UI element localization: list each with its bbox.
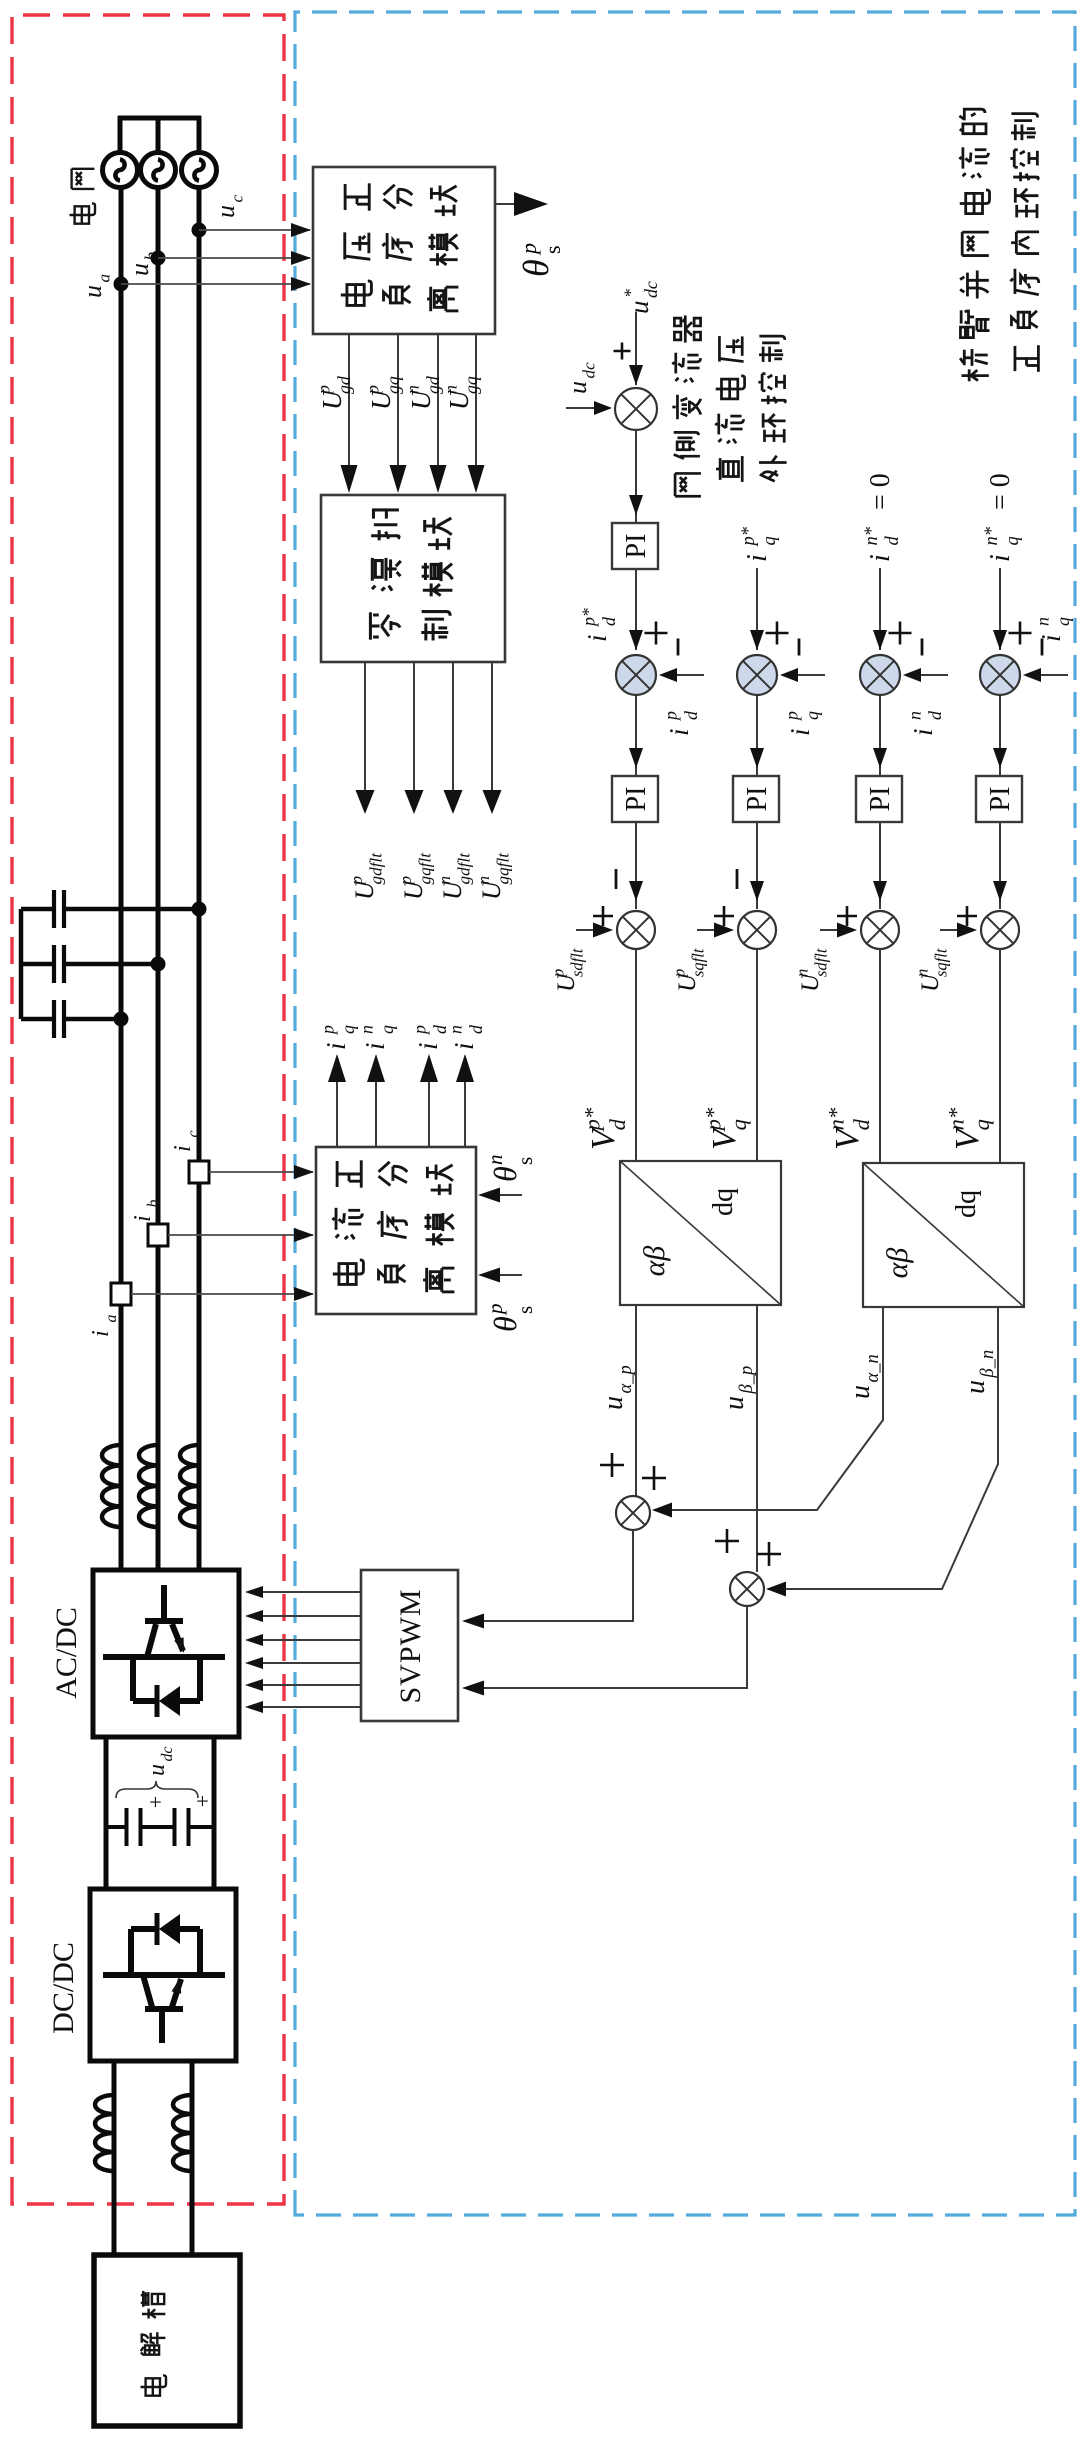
grid bus wire xyxy=(118,116,201,121)
svg-text:d: d xyxy=(882,535,902,545)
arrowhead U_gd^p xyxy=(341,465,358,493)
svg-text:c: c xyxy=(185,1130,202,1137)
svg-text:q: q xyxy=(1053,617,1073,626)
filter capacitor phase c xyxy=(21,890,207,928)
feedback wire row 2 xyxy=(784,674,825,676)
text 制模块 xyxy=(421,518,452,641)
label i_d^p fb xyxy=(661,711,701,736)
svg-text:i: i xyxy=(865,554,896,562)
phase a wire xyxy=(119,187,124,1570)
svg-text:n: n xyxy=(435,876,454,885)
svg-text:PI: PI xyxy=(621,787,652,812)
svg-text:gd: gd xyxy=(334,376,354,394)
wire source b to bus xyxy=(156,116,161,153)
arrowhead ub into voltage module xyxy=(291,251,311,265)
svg-text:dq: dq xyxy=(708,1188,739,1216)
svg-text:b: b xyxy=(142,251,161,260)
svg-text:θ: θ xyxy=(487,1316,523,1332)
svg-text:p: p xyxy=(661,711,681,722)
svg-text:i: i xyxy=(88,1330,114,1337)
svg-text:gq: gq xyxy=(461,376,481,394)
minus at Usum row 2 xyxy=(736,869,739,889)
filter capacitor phase a xyxy=(21,1000,129,1038)
u_dc* reference wire xyxy=(635,312,637,385)
label U_gd^p xyxy=(314,376,354,410)
wire i_d^p output xyxy=(428,1068,430,1147)
gate arrowhead 6 xyxy=(245,1586,263,1598)
svg-text:p: p xyxy=(318,1025,338,1036)
svg-text:q: q xyxy=(726,1119,751,1130)
U_s input wire row 2 xyxy=(697,929,730,931)
filter capacitor phase b xyxy=(21,945,166,983)
wire U_gqflt^p output xyxy=(413,662,415,803)
svg-text:α_p: α_p xyxy=(615,1365,635,1393)
svg-text:q: q xyxy=(338,1025,358,1034)
label i_d^n xyxy=(446,1025,486,1050)
wire V out row 4 xyxy=(999,949,1001,1164)
svg-text:n: n xyxy=(446,1025,466,1034)
minus sign row 2 xyxy=(798,639,801,656)
label U_gq^p xyxy=(363,376,403,410)
svg-text:DC/DC: DC/DC xyxy=(47,1942,80,2034)
svg-text:β_n: β_n xyxy=(977,1350,997,1379)
svg-text:= 0: = 0 xyxy=(865,473,896,510)
wire u_beta_n path xyxy=(768,1307,998,1589)
gate wire 4 xyxy=(250,1639,361,1641)
wire i_q^p output xyxy=(336,1068,338,1147)
plus sign row 4 xyxy=(1009,622,1032,645)
arrowhead U_gq^p xyxy=(390,465,407,493)
reference wire row 3 xyxy=(879,568,881,650)
label i_d^n fb xyxy=(905,711,945,736)
svg-text:gqflt: gqflt xyxy=(494,852,513,885)
label U_gdflt^p xyxy=(347,852,386,900)
svg-text:n*: n* xyxy=(944,1107,969,1130)
svg-text:n: n xyxy=(913,969,932,977)
label U_sqflt^n xyxy=(913,948,951,992)
svg-text:u: u xyxy=(144,1764,170,1776)
u_dc brace xyxy=(116,1781,198,1798)
gate wire 2 xyxy=(250,1684,361,1686)
alphabeta-dq transform box positive xyxy=(620,1161,781,1305)
label U_gdflt^n xyxy=(435,852,474,900)
wire udc sum to PI1 xyxy=(635,430,637,523)
AC/DC converter box xyxy=(93,1570,239,1737)
svg-text:u: u xyxy=(563,381,592,394)
svg-text:dq: dq xyxy=(951,1190,982,1218)
svg-text:i: i xyxy=(321,1042,351,1050)
svg-text:p*: p* xyxy=(738,526,758,547)
svg-text:i: i xyxy=(985,554,1016,562)
sum junction row 4 xyxy=(980,655,1020,695)
wire sum to PI row 4 xyxy=(999,696,1001,776)
wire U_gdflt^n output xyxy=(452,662,454,803)
text 负序分 xyxy=(382,185,412,303)
svg-text:u: u xyxy=(719,1396,750,1410)
label u_c xyxy=(211,194,247,218)
svg-text:p: p xyxy=(782,711,802,722)
arrowhead i_d^n xyxy=(456,1054,474,1082)
svg-text:p: p xyxy=(396,875,415,885)
blue dashed boundary (control region) xyxy=(295,12,1075,2215)
wire i_d^n output xyxy=(464,1068,466,1147)
text 离模块 xyxy=(423,1165,454,1293)
label U_gd^n xyxy=(403,376,443,410)
label i_a xyxy=(88,1315,120,1337)
wire u_beta_p xyxy=(756,1305,758,1572)
svg-text:gdflt: gdflt xyxy=(367,852,386,885)
wire ia tap to current module xyxy=(131,1293,313,1295)
wire U_gqflt^n output xyxy=(491,662,493,803)
svg-text:u: u xyxy=(78,285,107,298)
svg-text:a: a xyxy=(95,274,114,283)
phase c wire xyxy=(197,187,202,1570)
svg-text:αβ: αβ xyxy=(881,1248,914,1279)
plus M1 b xyxy=(642,1466,666,1490)
inductor dc bottom xyxy=(173,2095,192,2171)
node ua xyxy=(114,277,129,292)
arrowhead U_gq^n xyxy=(468,465,485,493)
annotation 直流电压 xyxy=(715,336,744,482)
arrowhead U_gdflt^n xyxy=(444,790,463,814)
label U_gqflt^n xyxy=(474,852,512,900)
label i_d^p xyxy=(410,1025,450,1050)
label i_d^n* xyxy=(861,526,902,562)
freewheel diode in AC/DC xyxy=(159,1686,180,1716)
svg-text:sdflt: sdflt xyxy=(811,948,830,977)
arrowhead i_d^p xyxy=(420,1054,438,1082)
wire PI to Usum row 3 xyxy=(879,822,881,909)
svg-text:n: n xyxy=(905,711,925,720)
sum junction beta mix xyxy=(730,1572,764,1606)
label i_q^p xyxy=(318,1025,358,1050)
svg-text:q: q xyxy=(377,1025,397,1034)
node ub xyxy=(151,251,166,266)
gate arrowhead 1 xyxy=(245,1701,263,1713)
sum junction Usum row 1 xyxy=(617,911,655,949)
svg-text:s: s xyxy=(513,1306,537,1314)
arrowhead i_q^n xyxy=(367,1054,385,1082)
plus at Usum row 1 xyxy=(593,906,613,926)
svg-text:n*: n* xyxy=(824,1107,849,1130)
svg-text:n: n xyxy=(441,385,461,394)
svg-text:q: q xyxy=(969,1119,994,1130)
label U_sqflt^p xyxy=(670,948,708,992)
U_s input wire row 1 xyxy=(576,929,609,931)
label U_gq^n xyxy=(441,376,481,410)
PI box row 2 xyxy=(733,776,779,822)
svg-text:b: b xyxy=(145,1200,162,1208)
wire dcdc out top xyxy=(112,2061,117,2255)
feedback wire row 1 xyxy=(663,674,704,676)
plus at udc sum xyxy=(614,343,631,360)
label U_sdflt^p xyxy=(549,948,587,992)
svg-text:p: p xyxy=(516,243,541,256)
wire PI1 to sum i_d^p xyxy=(635,569,637,650)
PI box row 4 xyxy=(976,776,1022,822)
svg-text:u: u xyxy=(125,263,154,276)
minus sign row 3 xyxy=(921,639,924,656)
svg-text:AC/DC: AC/DC xyxy=(50,1607,83,1699)
svg-text:p: p xyxy=(670,969,689,978)
svg-text:s: s xyxy=(513,1157,537,1165)
svg-text:n*: n* xyxy=(981,526,1001,545)
svg-text:i: i xyxy=(908,728,938,736)
red dashed boundary (power stage region) xyxy=(12,15,284,2204)
label u_a xyxy=(78,274,114,298)
DC/DC IGBT emitter arrowhead xyxy=(172,1977,185,1994)
svg-text:i: i xyxy=(785,728,815,736)
svg-text:u: u xyxy=(624,301,654,315)
label theta_s_p out xyxy=(516,259,556,277)
label i_q^n xyxy=(357,1025,397,1050)
inductor phase c xyxy=(180,1445,199,1527)
svg-text:q: q xyxy=(759,536,779,545)
plus sign row 2 xyxy=(766,622,789,645)
label theta_s_p in xyxy=(487,1316,523,1332)
svg-text:i: i xyxy=(664,728,694,736)
gate wire 5 xyxy=(250,1615,361,1617)
svg-text:a: a xyxy=(103,1315,120,1323)
SVPWM box xyxy=(361,1570,458,1721)
label i_d^p* xyxy=(579,608,619,642)
IGBT in AC/DC xyxy=(103,1585,225,1701)
PI box outer loop xyxy=(612,523,658,569)
svg-text:gqflt: gqflt xyxy=(416,852,435,885)
wire ua tap to voltage module xyxy=(121,283,310,285)
arrowhead ia into current module xyxy=(294,1287,314,1301)
svg-text:d: d xyxy=(599,617,619,626)
svg-text:sqflt: sqflt xyxy=(931,948,950,977)
svg-text:n: n xyxy=(403,385,423,394)
svg-text:dc: dc xyxy=(159,1747,176,1762)
label i_q^p* xyxy=(738,526,779,562)
arrowhead ic into current module xyxy=(294,1165,314,1179)
arrowhead U_gd^n xyxy=(430,465,447,493)
wire uc tap to voltage module xyxy=(199,229,310,231)
svg-text:p*: p* xyxy=(579,608,599,628)
svg-text:i: i xyxy=(582,634,612,642)
theta_s^p input xyxy=(484,1274,522,1276)
DC/DC converter box xyxy=(90,1889,236,2061)
wire ic tap to current module xyxy=(209,1171,313,1173)
annotation 外环控制 xyxy=(758,336,786,481)
minus at Usum row 1 xyxy=(615,869,618,889)
diagonal negative xyxy=(863,1163,1024,1307)
svg-text:n*: n* xyxy=(861,526,881,545)
feedback wire row 3 xyxy=(907,674,948,676)
wire beta mix to SVPWM xyxy=(466,1606,747,1688)
label 电解槽 xyxy=(141,2291,167,2396)
label u_dc* xyxy=(621,281,661,314)
sum junction row 1 xyxy=(616,655,656,695)
svg-text:p*: p* xyxy=(701,1107,726,1132)
capacitor rail wire xyxy=(19,909,24,1019)
plus at Usum row 3 xyxy=(837,906,857,926)
wire PI to Usum row 4 xyxy=(999,822,1001,909)
current sensor ic xyxy=(189,1161,209,1183)
svg-text:sdflt: sdflt xyxy=(567,948,586,977)
inductor dc top xyxy=(95,2095,114,2171)
svg-text:d: d xyxy=(466,1025,486,1034)
wire V out row 3 xyxy=(879,949,881,1164)
label u_beta_n xyxy=(960,1350,997,1394)
wire PI to Usum row 1 xyxy=(635,822,637,909)
wire alpha mix to SVPWM xyxy=(466,1530,633,1621)
label U_gqflt^p xyxy=(396,852,435,900)
wire sum to PI row 2 xyxy=(756,696,758,776)
svg-text:i: i xyxy=(449,1042,479,1050)
voltage seq separation module box xyxy=(313,167,495,334)
svg-text:u: u xyxy=(845,1385,876,1399)
svg-text:p*: p* xyxy=(580,1107,605,1132)
reference wire row 2 xyxy=(756,568,758,650)
svg-text:= 0: = 0 xyxy=(985,473,1016,510)
wire U_gq^p to zero drift module xyxy=(397,334,399,482)
text 负序分 xyxy=(377,1162,407,1282)
svg-text:β_p: β_p xyxy=(736,1366,756,1395)
label u_alpha_n xyxy=(845,1354,882,1399)
plus at Usum row 2 xyxy=(714,906,734,926)
svg-text:u: u xyxy=(211,205,240,218)
sum junction Usum row 3 xyxy=(861,911,899,949)
text 零漂抑 xyxy=(370,510,400,640)
wire ib tap to current module xyxy=(168,1234,313,1236)
svg-text:PI: PI xyxy=(621,534,652,559)
sum junction row 2 xyxy=(737,655,777,695)
wire sum to PI row 1 xyxy=(635,696,637,776)
gate arrowhead 2 xyxy=(245,1679,263,1691)
svg-text:d: d xyxy=(925,711,945,720)
sum junction row 3 xyxy=(860,655,900,695)
svg-text:i: i xyxy=(413,1042,443,1050)
svg-text:n: n xyxy=(357,1025,377,1034)
minus sign row 1 xyxy=(677,639,680,656)
plus sign row 1 xyxy=(645,622,668,645)
wire u_alpha_n path xyxy=(654,1307,883,1510)
label u_b xyxy=(125,251,161,276)
gate arrowhead 3 xyxy=(245,1657,263,1669)
gate wire 1 xyxy=(250,1706,361,1708)
freewheel diode in DC/DC xyxy=(159,1914,180,1944)
dc rail bottom xyxy=(212,1735,217,1889)
u_dc feedback wire xyxy=(566,407,610,409)
wire V out row 2 xyxy=(756,949,758,1161)
plus M1 a xyxy=(600,1453,624,1477)
wire dcdc out bottom xyxy=(190,2061,195,2255)
AC source phase b xyxy=(141,153,176,188)
node uc xyxy=(192,223,207,238)
svg-text:p: p xyxy=(549,969,568,978)
label U_sdflt^n xyxy=(793,948,831,992)
svg-text:α_n: α_n xyxy=(862,1354,882,1382)
gate wire 6 xyxy=(250,1591,361,1593)
gate arrowhead 4 xyxy=(245,1634,263,1646)
svg-text:θ: θ xyxy=(487,1166,523,1182)
IGBT emitter arrowhead xyxy=(174,1637,189,1655)
arrowhead uc into voltage module xyxy=(291,223,311,237)
wire i_q^n output xyxy=(375,1068,377,1147)
label i_c xyxy=(170,1130,202,1152)
label u_beta_p xyxy=(719,1366,756,1410)
wire V out row 1 xyxy=(635,949,637,1161)
current seq separation module box xyxy=(316,1147,476,1314)
label theta_s_n xyxy=(487,1166,523,1182)
svg-text:s: s xyxy=(540,245,565,254)
sum junction alpha mix xyxy=(616,1496,650,1530)
svg-text:c: c xyxy=(228,194,247,202)
svg-text:θ: θ xyxy=(516,259,556,277)
electrolyzer box xyxy=(94,2255,240,2426)
inductor phase b xyxy=(139,1445,158,1527)
wire source c to bus xyxy=(197,116,202,153)
wire source a to bus xyxy=(118,116,123,153)
svg-text:PI: PI xyxy=(742,787,773,812)
svg-text:u: u xyxy=(598,1396,629,1410)
feedback wire row 4 xyxy=(1027,674,1068,676)
text 电压正 xyxy=(341,183,372,305)
svg-text:q: q xyxy=(802,711,822,720)
theta_s^p output wire xyxy=(495,203,516,205)
svg-text:i: i xyxy=(1036,634,1066,642)
arrowhead i_q^p xyxy=(328,1054,346,1082)
AC source phase c xyxy=(182,153,217,188)
alphabeta-dq transform box negative xyxy=(863,1163,1024,1307)
svg-text:αβ: αβ xyxy=(638,1246,671,1277)
svg-text:n: n xyxy=(1033,617,1053,626)
AC source phase a xyxy=(103,153,138,188)
wire U_gdflt^p output xyxy=(364,662,366,803)
wire U_gd^n to zero drift module xyxy=(437,334,439,482)
svg-text:n: n xyxy=(474,876,493,885)
arrowhead U_gqflt^n xyxy=(483,790,502,814)
svg-text:p: p xyxy=(347,875,366,885)
current sensor ia xyxy=(111,1283,131,1305)
wire U_gq^n to zero drift module xyxy=(475,334,477,482)
sum junction Usum row 2 xyxy=(738,911,776,949)
minus sign row 4 xyxy=(1041,639,1044,656)
label i_q^p fb xyxy=(782,711,822,736)
annotation 网侧变流器 xyxy=(672,315,701,496)
zero drift suppression module box xyxy=(321,495,505,662)
text 离模块 xyxy=(427,186,458,312)
svg-text:i: i xyxy=(170,1145,196,1152)
diagonal positive xyxy=(620,1161,781,1305)
text 电流正 xyxy=(332,1160,363,1284)
svg-text:d: d xyxy=(849,1118,874,1130)
IGBT in DC/DC xyxy=(103,1929,225,2043)
svg-text:p: p xyxy=(410,1025,430,1036)
plus M2 b xyxy=(757,1542,781,1566)
phase b wire xyxy=(156,187,161,1570)
label i_b xyxy=(130,1200,162,1222)
svg-text:dc: dc xyxy=(580,362,599,379)
svg-text:PI: PI xyxy=(985,787,1016,812)
label u_alpha_p xyxy=(598,1365,635,1410)
annotation 正负序内环控制 xyxy=(1010,114,1039,372)
label i_q^n fb xyxy=(1033,617,1073,642)
label V_d^n* xyxy=(824,1107,875,1150)
arrowhead ib into current module xyxy=(294,1228,314,1242)
reference wire row 4 xyxy=(999,568,1001,650)
wire ub tap to voltage module xyxy=(158,257,310,259)
label i_q^n* xyxy=(981,526,1022,562)
svg-text:d: d xyxy=(605,1118,630,1130)
label V_q^p* xyxy=(701,1107,752,1150)
wire u_alpha_p xyxy=(635,1305,637,1496)
svg-text:sqflt: sqflt xyxy=(688,948,707,977)
plus M2 a xyxy=(715,1529,739,1553)
